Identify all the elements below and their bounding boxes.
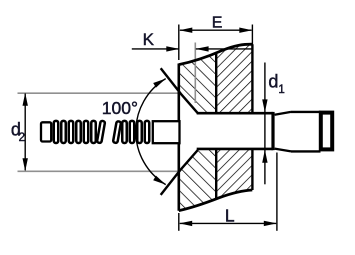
svg-text:E: E [212,15,223,32]
svg-text:L: L [225,205,235,225]
svg-text:K: K [143,30,155,49]
svg-text:100°: 100° [102,98,138,118]
svg-text:1: 1 [278,84,284,96]
svg-text:d: d [268,72,278,92]
svg-text:2: 2 [19,132,25,144]
